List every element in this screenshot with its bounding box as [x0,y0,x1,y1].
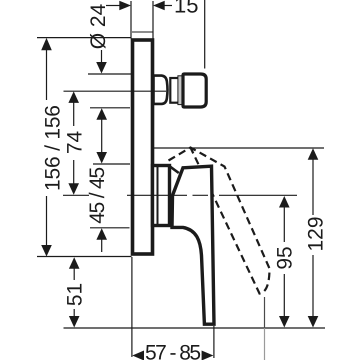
dimension 129 top arrow [308,148,319,160]
dimension 156/156 line lower [46,196,48,246]
extension line spout top [88,73,133,75]
dimension 74 line upper [73,102,75,126]
dimension 15 top line left segment [106,5,120,7]
svg-text:15: 15 [174,0,198,17]
dimension 15 left arrow [119,1,131,11]
svg-text:95: 95 [274,246,297,269]
spout taper [154,76,168,104]
dimension 129 line lower [312,255,314,317]
dashed handle raised outline [169,148,270,294]
handle lever back edge diagonal [169,166,179,173]
extension line sleeve top [93,163,130,165]
dimension 45/45 top arrow [96,108,107,120]
dimension 45/45 line upper [101,119,103,152]
extension line spout cap to top [204,0,206,69]
dimension 74 top arrow [68,91,79,103]
dimension 51 bottom arrow [69,316,80,328]
dimension 74 line lower [73,160,75,184]
svg-text:74: 74 [64,131,87,155]
centerline cartridge axis segment 3 [193,194,209,196]
spout o-ring gray band [178,76,182,105]
dimension 51 line upper [73,268,75,280]
wall plate [133,40,153,254]
svg-text:45 / 45: 45 / 45 [86,167,109,224]
handle sleeve inner step [157,166,159,224]
dimension 57-85 left arrow [132,351,144,360]
extension line dashed tip lower [264,328,266,360]
dimension 51 top arrow [69,257,80,269]
extension line spout bottom [90,107,130,109]
svg-text:156 / 156: 156 / 156 [42,105,65,191]
extension line plate bottom [37,256,132,258]
dimension 57-85 left extension [131,257,133,357]
dimension 45/45 mid arrow [96,152,107,164]
centerline cartridge axis segment 4 [219,194,297,196]
dimension 95 line lower [283,274,285,317]
dimension 95 top arrow [279,196,290,208]
handle sleeve [153,166,170,226]
dimension 15 top line right segment [164,5,172,7]
dimension 156/156 top arrow [41,38,52,50]
handle lever body [172,166,214,324]
dimension 129 bottom arrow [308,316,319,328]
dimension 129 line upper [312,159,314,215]
dimension 51 line lower [73,309,75,317]
dimension 45/45 bottom tail [101,239,103,252]
dimension 45/45 bottom arrow outside [96,228,107,240]
extension line plate top [37,37,131,39]
svg-text:129: 129 [305,216,328,251]
svg-text:57 - 85: 57 - 85 [145,342,201,360]
svg-text:51: 51 [64,283,87,306]
dimension 156/156 line upper [46,50,48,100]
dimension 15 right arrow [153,1,165,11]
extension line 15 left [130,1,132,39]
dimension 156/156 bottom arrow [41,245,52,257]
extension line sleeve bottom [90,227,130,229]
dimension Ø24 line [101,50,103,63]
extension line dashed tip upper [264,297,266,328]
centerline cartridge axis segment 2 [127,194,187,196]
spout neck [170,78,179,103]
wall reference line bottom [64,327,326,329]
centerline cartridge axis segment 1 [63,194,89,196]
dimension 74 bottom arrow [68,183,79,195]
dimension 57-85 right extension [213,326,215,358]
hidden body top line [132,31,153,33]
dimension 95 line upper [283,207,285,242]
extension line handle top [153,147,325,149]
spout end cap [183,74,206,107]
dimension 57-85 right arrow [202,351,214,360]
dimension Ø24 arrow [96,62,107,74]
dimension 95 bottom arrow [279,316,290,328]
centerline spout axis [64,90,167,92]
extension line 15 right [152,1,154,39]
svg-text:Ø 24: Ø 24 [87,3,110,49]
